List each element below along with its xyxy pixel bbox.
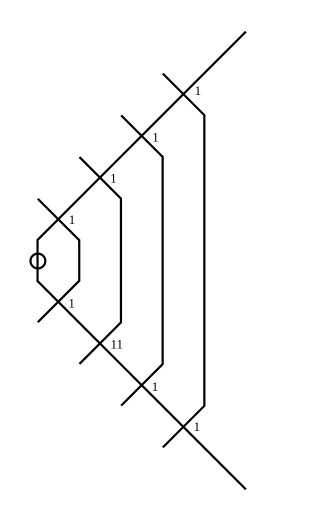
svg-text:1: 1 <box>68 296 75 311</box>
wire hairpin strand 1 (outermost: NW stub, crossing C1, right vertical, crossing B1, SW stub) <box>163 74 205 448</box>
wire hairpin strand 4 (innermost hexagon right side: NW stub, crossing C4, vertical, crossing B4, SW stub) <box>38 199 80 323</box>
svg-text:1: 1 <box>110 170 117 185</box>
svg-text:11: 11 <box>111 337 124 352</box>
svg-text:1: 1 <box>195 83 202 98</box>
node marker circle on left vertical strand <box>31 254 46 269</box>
wire main strand (long open C-shaped strand: top-right diagonal, left vertical, bottom-right diagonal) <box>38 32 246 490</box>
svg-text:1: 1 <box>152 379 159 394</box>
svg-text:1: 1 <box>194 419 201 434</box>
svg-text:1: 1 <box>152 130 159 145</box>
svg-text:1: 1 <box>69 212 76 227</box>
wire hairpin strand 3 (NW stub, crossing C3, vertical, crossing B3, SW stub) <box>79 157 121 364</box>
wire hairpin strand 2 (NW stub, crossing C2, vertical, crossing B2, SW stub) <box>121 115 162 405</box>
